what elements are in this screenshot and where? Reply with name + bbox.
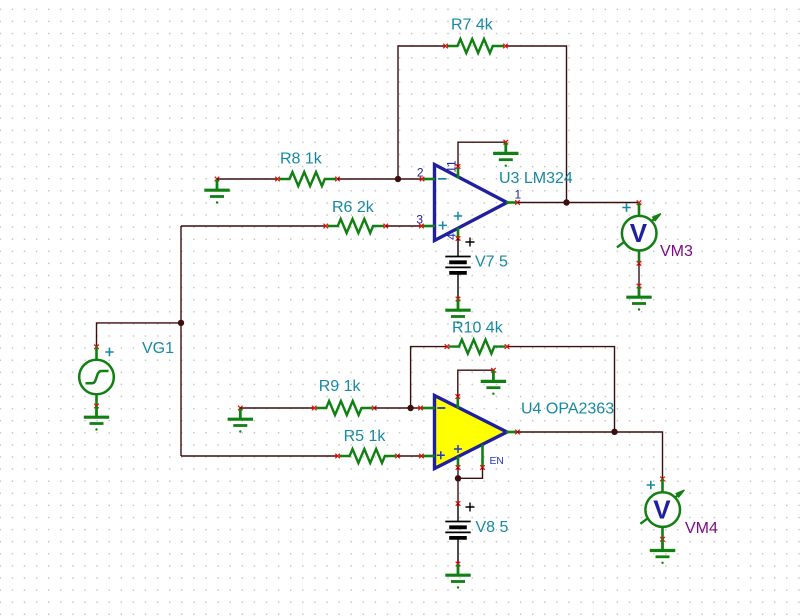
svg-text:VM4: VM4: [685, 520, 718, 537]
resistor R6 2k: [324, 219, 389, 233]
svg-text:11: 11: [445, 160, 459, 173]
op-amp U3 LM324: [435, 165, 508, 241]
plus mark V8: [466, 503, 475, 512]
junction feedback/R9: [407, 405, 413, 411]
pin 3 stub U3: [421, 225, 435, 228]
wire feedback left to R7: [398, 46, 445, 179]
svg-text:VG1: VG1: [142, 340, 174, 357]
battery V7 5: [445, 236, 470, 301]
svg-text:R5 1k: R5 1k: [344, 428, 387, 445]
wire R5 to U4 plus: [398, 455, 422, 457]
ground GND7 at U4 V+: [481, 368, 506, 395]
voltmeter VM3: [617, 214, 661, 251]
svg-text:3: 3: [416, 213, 423, 227]
svg-text:EN: EN: [490, 456, 504, 467]
ground GND3 below V7: [445, 299, 470, 324]
voltmeter VM4: [640, 490, 684, 527]
U4 plus pin stub: [421, 455, 435, 458]
resistor R8 1k: [275, 172, 340, 186]
ground GND2 at U3 pin 11: [493, 140, 518, 167]
svg-text:VM3: VM3: [660, 243, 693, 260]
pin 2 stub U3: [422, 178, 435, 181]
U4 output stub: [506, 431, 518, 434]
ground GND4 below VM3: [626, 284, 651, 311]
svg-text:V: V: [630, 218, 648, 248]
svg-text:V: V: [653, 494, 671, 524]
resistor R9 1k: [312, 401, 377, 415]
VM4 top stub: [660, 477, 665, 482]
svg-text:2: 2: [417, 166, 424, 180]
ground GND1 at R8 input: [204, 177, 229, 204]
wire R10 to output node: [507, 347, 615, 432]
ground GND5 below VG1: [84, 404, 109, 431]
wire U3 output to VM3: [518, 202, 640, 204]
junction V-/EN: [455, 475, 461, 481]
svg-text:V8 5: V8 5: [476, 519, 509, 536]
wire VM3 to ground: [638, 263, 640, 286]
wire U4 V+ to ground: [458, 370, 494, 396]
svg-text:U4 OPA2363: U4 OPA2363: [521, 401, 614, 418]
pin 4 stub U3: [457, 228, 460, 239]
junction output/feedback U3: [563, 199, 569, 205]
wire U3 pin 11 to ground: [458, 142, 506, 166]
wire R6 to U3 pin 3: [386, 225, 422, 227]
plus mark V7: [466, 238, 475, 247]
resistor R10 4k: [445, 340, 510, 354]
generator VG1: [79, 345, 114, 407]
pin 1 stub U3 output: [506, 201, 518, 204]
resistor R7 4k: [443, 39, 508, 53]
wire U4 V- to battery V8: [457, 468, 459, 504]
wire R9 to U4 minus: [374, 407, 420, 409]
VM3 bottom stub: [638, 251, 641, 264]
svg-text:R6 2k: R6 2k: [332, 199, 375, 216]
pin 11 stub U3: [457, 167, 460, 179]
wire vertical bus from R6 to R5: [180, 226, 182, 456]
resistor R5 1k: [335, 449, 400, 463]
U4 V- pin stub: [457, 457, 460, 468]
plus mark VG1: [105, 348, 113, 356]
svg-text:R10 4k: R10 4k: [452, 320, 504, 337]
junction feedback/R8: [395, 176, 401, 182]
battery V8 5: [445, 501, 470, 566]
wire U4 output to VM4: [518, 432, 663, 479]
svg-text:1: 1: [515, 188, 522, 202]
op-amp U4 OPA2363: [435, 396, 508, 469]
U4 EN pin stub: [481, 445, 484, 468]
ground GND9 below VM4: [650, 539, 675, 564]
wire bus to R5: [181, 455, 338, 457]
wire VG1 branch to R6: [181, 225, 326, 227]
wire feedback left to R10: [411, 347, 447, 408]
wire R8 to U3 pin 2: [338, 178, 423, 180]
VM4 bottom stub: [661, 527, 664, 539]
U4 minus pin stub: [421, 407, 436, 410]
svg-text:V7 5: V7 5: [475, 254, 508, 271]
svg-text:R9 1k: R9 1k: [319, 378, 362, 395]
ground GND6 at R9 input: [228, 406, 253, 433]
wire R7 to output node: [506, 46, 567, 203]
junction output/feedback U4: [611, 429, 617, 435]
U4 V+ pin stub: [456, 397, 459, 409]
VM3 top stub: [637, 200, 642, 205]
svg-text:R8 1k: R8 1k: [280, 151, 323, 168]
plus mark VM3: [622, 203, 630, 211]
svg-text:R7 4k: R7 4k: [451, 17, 494, 34]
wire ground to R9: [240, 407, 314, 409]
junction VG1 tap: [178, 320, 184, 326]
svg-text:U3 LM324: U3 LM324: [499, 170, 573, 187]
wire EN to V- net: [458, 468, 483, 479]
wire ground to R8: [217, 178, 278, 180]
ground GND8 below V8: [445, 564, 470, 589]
wire VG1 to node: [97, 323, 182, 347]
plus mark VM4: [647, 481, 655, 489]
